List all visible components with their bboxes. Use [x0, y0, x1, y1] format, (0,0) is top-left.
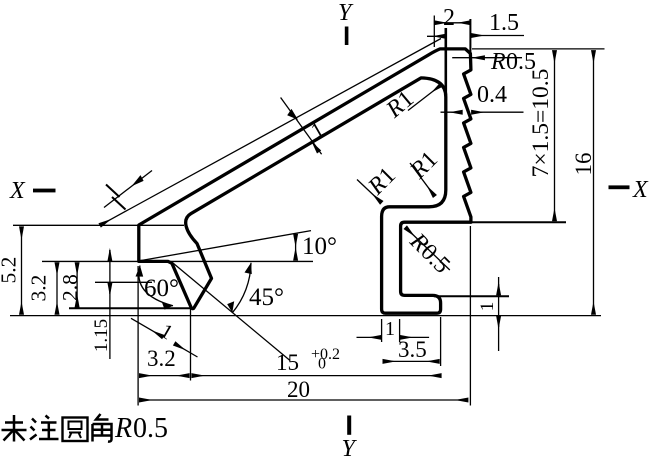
svg-text:X: X	[9, 178, 26, 204]
glyph Wei	[2, 415, 27, 442]
dimension 20	[139, 377, 468, 402]
glyph Yuan	[63, 418, 88, 442]
Y axis mark bottom	[342, 416, 358, 457]
svg-text:20: 20	[287, 377, 310, 402]
label R1 lower-left (S curve)	[357, 162, 401, 202]
dimension 7x1.5=10.5	[528, 51, 555, 221]
svg-text:7×1.5=10.5: 7×1.5=10.5	[528, 69, 554, 178]
glyph Zhu	[30, 416, 59, 440]
dimension 5.2	[0, 227, 22, 315]
note text: unnoted fillets R0.5	[2, 414, 112, 442]
svg-text:0.4: 0.4	[477, 82, 507, 108]
dimension 1 (foot wall thickness)	[357, 318, 430, 340]
60 degree arc	[136, 266, 180, 310]
wall extension line (x=445.8)	[444, 28, 447, 95]
svg-text:15: 15	[276, 350, 299, 375]
svg-text:16: 16	[571, 153, 596, 176]
svg-text:1: 1	[385, 318, 395, 340]
svg-text:45°: 45°	[249, 284, 284, 311]
svg-text:2: 2	[443, 5, 455, 31]
extension line left edge down	[137, 266, 139, 406]
extension line serration bottom to right	[472, 221, 566, 223]
extension line V tip level (2.8 bottom)	[69, 307, 195, 309]
svg-text:10°: 10°	[302, 233, 337, 260]
baseline extension line (foot bottom level)	[10, 315, 601, 317]
extension line inner V vertex level	[95, 281, 152, 283]
svg-text:0.5: 0.5	[133, 413, 168, 444]
extension line V tip down	[190, 309, 192, 381]
svg-text:3.2: 3.2	[147, 346, 176, 371]
dimension 1.5	[471, 10, 524, 36]
dimension 1.15	[91, 250, 112, 359]
dimension 2 (top tab)	[434, 5, 470, 47]
svg-text:R: R	[490, 49, 506, 75]
10 degree line	[139, 231, 311, 261]
extension lines foot walls down	[381, 319, 383, 342]
Y axis mark top	[338, 0, 354, 45]
dimension 3.2 left	[27, 263, 58, 315]
dimension 3.2 bottom	[139, 346, 189, 376]
svg-text:2.8: 2.8	[58, 274, 82, 301]
glyph Jiao	[93, 414, 112, 442]
svg-text:0: 0	[318, 356, 326, 373]
label R1 middle (wall bottom curve)	[405, 146, 443, 196]
svg-text:X: X	[632, 177, 649, 203]
svg-text:3.2: 3.2	[27, 275, 51, 302]
svg-text:R: R	[114, 413, 132, 444]
extension line notch floor to right	[434, 295, 509, 297]
dimension 1 (beam thickness)	[281, 98, 328, 155]
dimension 16	[571, 51, 596, 315]
dimension 10 degrees	[296, 233, 337, 260]
svg-text:1.15: 1.15	[91, 319, 112, 352]
svg-text:60°: 60°	[144, 275, 179, 302]
dimension 15 +0.2/0	[192, 346, 441, 376]
dimension 1 right (lip height)	[477, 277, 499, 351]
small arrow at tip ticks	[104, 171, 152, 208]
45 degree arc	[227, 263, 284, 313]
extension line right of tab (x=470.4)	[469, 19, 471, 53]
45 degree construction line	[171, 261, 290, 360]
extension line part right edge down	[469, 226, 471, 406]
extension line lip right down	[440, 317, 442, 366]
svg-text:5.2: 5.2	[0, 257, 21, 284]
extension line top-left corner level	[13, 224, 184, 226]
label R1 upper (at wall top curve)	[381, 85, 442, 124]
X axis mark right	[609, 177, 650, 203]
dimension 0.4	[441, 82, 524, 112]
beam tip thickness extension ticks	[106, 185, 120, 198]
svg-text:1: 1	[477, 302, 498, 312]
long thin line to 1.5 arrow (L_A)	[100, 36, 445, 225]
dimension 3.5	[383, 337, 439, 362]
extension line top edge to right	[472, 48, 605, 50]
label R0.5 (foot notch corner)	[404, 228, 455, 279]
dimension 1 (V strip thickness, lower left)	[131, 318, 198, 357]
label R0.5 top	[452, 49, 536, 75]
X axis mark left	[9, 178, 56, 204]
svg-text:1.5: 1.5	[489, 10, 519, 36]
horizontal reference line through P2 (10/45 deg reference)	[42, 260, 313, 262]
part outline	[139, 49, 471, 313]
dimension 2.8	[58, 263, 82, 308]
svg-text:3.5: 3.5	[398, 337, 427, 362]
